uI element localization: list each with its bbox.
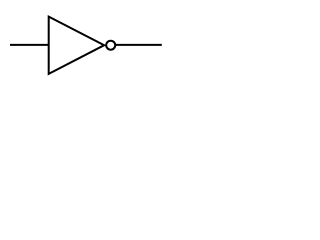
wire output bbox=[116, 44, 162, 46]
bubble bbox=[106, 41, 115, 50]
wire input bbox=[10, 44, 49, 46]
inverter triangle bbox=[49, 17, 104, 74]
